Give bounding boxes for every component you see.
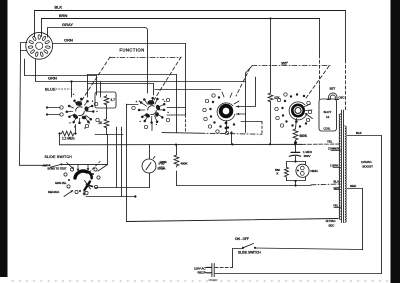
- set coil arch: [327, 87, 345, 100]
- wafer S1B right arms: [167, 108, 186, 116]
- resistor R3 2K: [99, 118, 109, 129]
- wire drop x126 to bottom bus: [126, 104, 128, 222]
- resistor R1 1.2MEG: [58, 131, 76, 140]
- function linkage dash-dot left: [110, 57, 181, 59]
- svg-text:COMMON: COMMON: [328, 147, 340, 151]
- svg-text:12: 12: [326, 115, 330, 119]
- rotary wafer S1B: [132, 97, 170, 129]
- svg-text:YEL: YEL: [327, 140, 333, 144]
- wire ORN drop: [185, 44, 187, 133]
- resistor R5 680K: [293, 119, 308, 145]
- AC plug P1: [194, 264, 214, 277]
- bus wire y185.5: [177, 184, 341, 186]
- svg-text:GRY: GRY: [334, 186, 340, 190]
- svg-text:680K: 680K: [300, 134, 308, 138]
- svg-text:ADJ: ADJ: [159, 166, 165, 170]
- wire plug bottom to right: [215, 273, 381, 275]
- resistor R6 480K: [159, 145, 187, 186]
- svg-text:117VAC: 117VAC: [326, 219, 336, 223]
- wire GRAY drop to wafer S1B: [145, 28, 148, 94]
- svg-text:4.7: 4.7: [111, 98, 116, 102]
- wire bus y75: [96, 76, 98, 96]
- wire S1E bottom row: [86, 195, 137, 197]
- wire RED transformer right: [348, 184, 363, 189]
- transformer tap YEL2: [333, 204, 341, 208]
- svg-text:BLUE: BLUE: [45, 87, 56, 92]
- wire x245 vertical: [245, 73, 247, 133]
- shield box resistor R2: [95, 92, 116, 108]
- transformer tap BRN: [330, 164, 341, 168]
- svg-text:2 BRN: 2 BRN: [330, 164, 338, 168]
- svg-text:SLIDE SWITCH: SLIDE SWITCH: [238, 251, 261, 255]
- svg-text:BOOST: BOOST: [363, 165, 374, 169]
- wire drop x87: [87, 75, 89, 98]
- wire ORN: [53, 38, 186, 44]
- svg-text:RED-BLK: RED-BLK: [48, 190, 59, 194]
- svg-text:BRN: BRN: [59, 13, 68, 18]
- transformer tap COMMON: [328, 147, 341, 151]
- svg-text:YEL: YEL: [333, 204, 339, 208]
- wafer S1E contact drop arrow: [98, 165, 108, 172]
- wire right drop x362: [362, 189, 364, 250]
- function linkage diagonal to wafer S1D: [306, 66, 329, 98]
- wire BLK: [35, 5, 346, 38]
- svg-text:COIL: COIL: [324, 127, 331, 131]
- wire bus y88: [155, 89, 221, 91]
- rotary wafer S1C: [203, 92, 239, 135]
- function linkage diagonal to wafer S1A: [82, 57, 110, 100]
- svg-text:RED: RED: [350, 184, 356, 188]
- wire GRN: [36, 59, 101, 83]
- right scan border: [391, 0, 400, 283]
- transformer T1 primary winding: [339, 114, 340, 219]
- wire R2 to R3: [106, 106, 108, 118]
- switch S3 on-off: [235, 237, 261, 255]
- svg-text:ORN: ORN: [64, 38, 73, 43]
- boost label: [361, 160, 373, 169]
- wire BLUE dotted: [45, 87, 70, 92]
- wire R1 to bus: [59, 134, 61, 145]
- svg-text:RECP: RECP: [198, 271, 206, 275]
- wire S3 left: [215, 249, 243, 268]
- svg-text:115VAC: 115VAC: [361, 160, 372, 164]
- wire bus y83: [88, 84, 154, 96]
- svg-text:SLIDE SWITCH: SLIDE SWITCH: [45, 155, 73, 159]
- resistor R2 4.7: [104, 95, 115, 106]
- bus wire y144.5: [60, 143, 341, 146]
- svg-text:BLU: BLU: [334, 180, 339, 184]
- wire right drop x381: [381, 136, 383, 274]
- svg-text:GRAY: GRAY: [62, 22, 73, 27]
- box bottom line: [162, 133, 262, 135]
- svg-text:FUNCTION: FUNCTION: [120, 47, 145, 52]
- svg-text:K: K: [277, 172, 279, 176]
- svg-text:115V AC: 115V AC: [194, 266, 206, 270]
- wire GRAY: [48, 22, 145, 37]
- coil box L1: [319, 99, 337, 131]
- resistor R7 560K with lamp box: [275, 162, 306, 181]
- bus wire y222 to transformer: [127, 219, 339, 222]
- socket cable stub: [21, 43, 28, 51]
- svg-text:SET: SET: [330, 87, 336, 91]
- wire drop x116: [116, 127, 118, 188]
- rotation note: [281, 62, 289, 66]
- wire R3 bottom to row: [95, 128, 123, 135]
- function linkage diagonal to wafer S1B: [154, 57, 181, 100]
- svg-text:1 MFD: 1 MFD: [303, 150, 312, 154]
- wire BLK transformer right: [348, 131, 382, 136]
- socket J1: [26, 32, 53, 59]
- svg-text:BLK: BLK: [356, 131, 362, 135]
- wafer S1A bottom leg: [75, 125, 77, 134]
- svg-text:SLOT: SLOT: [324, 110, 332, 114]
- transformer tap YEL: [327, 140, 333, 144]
- svg-text:NE51: NE51: [311, 169, 319, 173]
- capacitor C1: [289, 144, 312, 162]
- rotary wafer S1E: [64, 162, 100, 197]
- transformer tap GRY: [334, 186, 341, 190]
- wafer S1C right arms: [236, 105, 256, 115]
- wire BRN: [42, 13, 320, 37]
- svg-text:480K: 480K: [181, 162, 188, 166]
- bottom smudge mark: [209, 279, 217, 281]
- function switch label: [120, 47, 145, 52]
- wire left tall drop: [20, 51, 21, 166]
- wire lamp box to bus: [294, 180, 296, 187]
- wafer S1A left contact arms: [46, 106, 60, 115]
- resistor R4 47K: [268, 17, 280, 144]
- wire drop x122: [121, 127, 123, 197]
- wire S3 right: [255, 248, 363, 250]
- wafer S1B bottom stub: [151, 124, 153, 131]
- neon lamp DS1 NE51: [296, 164, 318, 177]
- wire BLK drop to transformer: [345, 11, 347, 111]
- rotary wafer S1A: [60, 94, 99, 129]
- svg-text:2K: 2K: [99, 121, 104, 125]
- svg-text:1.2 MEG: 1.2 MEG: [62, 137, 75, 141]
- transformer tap BLU dash-dot: [334, 180, 339, 184]
- svg-text:OSC: OSC: [339, 96, 345, 100]
- svg-text:365°: 365°: [281, 62, 289, 66]
- transformer bottom tap label: [326, 219, 336, 228]
- wire x255 vertical: [255, 77, 257, 106]
- function linkage middle jog: [246, 66, 253, 73]
- function linkage diagonal to wafer S1C: [236, 68, 250, 96]
- svg-text:100%: 100%: [160, 160, 168, 164]
- svg-text:BLK: BLK: [55, 5, 63, 10]
- meter M1: [142, 145, 165, 188]
- wire BRN drop to coil box: [319, 19, 321, 100]
- transformer T1 secondary winding: [345, 126, 346, 222]
- wire socket pin down left: [25, 59, 97, 76]
- svg-text:ON - OFF: ON - OFF: [235, 237, 249, 241]
- transformer T1 core: [342, 110, 344, 223]
- svg-text:GRN: GRN: [48, 76, 57, 81]
- bottom scan text remnant: [12, 280, 388, 282]
- wire junction drop x72: [71, 82, 73, 98]
- svg-text:400V: 400V: [304, 154, 311, 158]
- wire x176 vertical: [176, 75, 178, 133]
- svg-text:SEC: SEC: [329, 224, 335, 228]
- function linkage dash-dot right: [252, 65, 330, 67]
- rotary wafer S1D: [275, 93, 313, 128]
- svg-text:GRN-YEL: GRN-YEL: [55, 181, 67, 185]
- wire S1E right to meter: [95, 187, 150, 189]
- wire GRN bus extension: [101, 81, 246, 83]
- left scan border: [0, 0, 8, 277]
- wire drop x107.5 to slide switch: [107, 135, 109, 165]
- wire GRN drop to wafer S1A: [100, 82, 102, 98]
- wafer S1B left arm: [127, 104, 139, 106]
- dashed box near S1C: [241, 122, 262, 135]
- wire bus y74: [88, 74, 177, 76]
- wafer S1E labels: [48, 181, 67, 194]
- wire x232.5 to bus: [230, 131, 232, 144]
- slide switch S2: [20, 155, 108, 170]
- wafer S1C bottom stub: [225, 121, 228, 133]
